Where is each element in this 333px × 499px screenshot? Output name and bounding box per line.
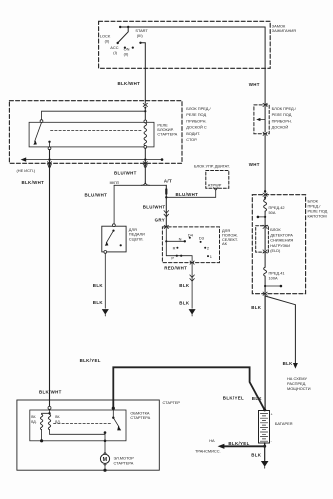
relay contact lever [35, 123, 42, 142]
wire branch to power distribution [265, 296, 295, 363]
svg-text:A/T: A/T [164, 179, 172, 184]
wire below fuse 42 [264, 211, 266, 227]
wire below fuse 41 [264, 276, 266, 292]
stub terminal left [258, 216, 265, 218]
node crossing solenoid case [104, 440, 107, 443]
breaker arrow inside [260, 119, 266, 121]
connector chevron at ECM [214, 188, 218, 191]
wire to hold winding [42, 412, 50, 415]
svg-text:BLK/WHT: BLK/WHT [22, 180, 45, 185]
wire relay switched output [49, 143, 51, 147]
connector at dash fuse box entry [143, 103, 147, 106]
fuse 41 100A [264, 267, 267, 276]
wire through small fuse box [264, 107, 266, 132]
svg-text:1: 1 [210, 254, 212, 259]
relay mechanical link [51, 129, 143, 131]
svg-text:RED/WHT: RED/WHT [164, 266, 187, 271]
wire BLK/YEL starter to battery (heavy) [113, 367, 264, 409]
fuse 42 50A [264, 199, 267, 211]
starter solenoid box [30, 410, 126, 441]
relay coil terminal bottom [144, 146, 147, 149]
wire pivot feed [112, 410, 114, 418]
svg-text:BLK/WHT: BLK/WHT [118, 81, 141, 86]
solenoid mechanical link [54, 422, 111, 424]
winding labels [31, 415, 60, 424]
svg-text:БЛОК ПРЕД./: БЛОК ПРЕД./ [272, 106, 297, 111]
wire WHT down to underhood box [264, 135, 266, 193]
node P row dot [180, 255, 182, 257]
node ON contact [132, 47, 134, 49]
ignition switch label [272, 23, 296, 32]
svg-text:ДОСКОЙ С: ДОСКОЙ С [186, 125, 207, 130]
wire into windings [49, 409, 51, 413]
svg-text:ДОСКОЙ: ДОСКОЙ [272, 125, 289, 130]
A/T gear position switch dashed box [162, 227, 219, 263]
svg-text:BLK/YEL: BLK/YEL [223, 396, 244, 401]
svg-text:СЦЕПЛ.: СЦЕПЛ. [129, 236, 144, 241]
node winding split [48, 412, 50, 414]
svg-text:D3: D3 [199, 236, 204, 241]
ignition switch lever (in LOCK) [118, 27, 128, 43]
wire into fuse 42 [264, 196, 266, 199]
connector right wire box exit [143, 162, 147, 165]
connector at underhood box exit [263, 292, 267, 295]
node LOCK contact [117, 42, 119, 44]
node motor case ground [103, 469, 106, 472]
svg-text:ВК.: ВК. [55, 415, 60, 419]
connector at ELD box entry [263, 225, 267, 228]
svg-text:-: - [271, 440, 272, 444]
node B terminal on solenoid [112, 407, 115, 410]
node end dot [161, 158, 164, 161]
svg-text:WHT: WHT [249, 82, 260, 87]
svg-text:ТРАНСМИСС.: ТРАНСМИСС. [195, 449, 221, 454]
svg-text:R: R [173, 245, 176, 250]
relay coil R [144, 123, 147, 146]
solenoid contact pivot [112, 417, 114, 419]
node junction right [144, 158, 146, 160]
battery polarity [271, 412, 273, 443]
svg-text:(II): (II) [124, 52, 129, 57]
terminal circle bottom of contact [48, 147, 51, 150]
wire to fuse 41 [264, 253, 266, 267]
arrow not used [21, 157, 27, 161]
wire to N contact [166, 240, 184, 242]
inline connector on A/T branch [164, 211, 169, 217]
node battery negative junction [263, 445, 266, 448]
svg-text:BLU/WHT: BLU/WHT [114, 171, 137, 176]
wire M terminal to motor [104, 433, 106, 453]
arrow to power distribution [293, 363, 298, 369]
ignition position labels [100, 28, 149, 56]
svg-text:BLK: BLK [93, 300, 104, 305]
connector at underhood box entry [263, 193, 267, 196]
svg-text:РЕЛЕ ПОД: РЕЛЕ ПОД [186, 112, 206, 117]
svg-text:BLU/WHT: BLU/WHT [143, 204, 166, 209]
wire hold winding to case [41, 429, 43, 440]
solenoid terminal circle [48, 406, 51, 409]
svg-text:АК: АК [222, 241, 228, 246]
wire START to starter-cut relay [141, 43, 146, 103]
svg-text:(ELD): (ELD) [270, 248, 281, 253]
wire battery negative [264, 443, 266, 446]
relay label [157, 123, 177, 137]
svg-text:2: 2 [207, 245, 209, 250]
clutch switch terminal bottom [104, 251, 107, 254]
selector box label [222, 228, 238, 246]
node junction N branch [165, 240, 167, 242]
ELD label [270, 227, 293, 253]
svg-text:СТАРТЕРА: СТАРТЕРА [114, 460, 134, 465]
svg-text:КАПОТОМ: КАПОТОМ [308, 213, 327, 218]
label to power distribution [287, 376, 311, 391]
label starter winding [130, 410, 150, 420]
svg-text:СТАРТЕРА: СТАРТЕРА [130, 415, 150, 420]
svg-text:BLK: BLK [251, 305, 262, 310]
svg-text:ВОДИТ.: ВОДИТ. [186, 131, 200, 136]
ignition switch dashed housing [99, 21, 271, 68]
svg-text:GRY: GRY [155, 217, 165, 222]
solenoid contact lever [113, 418, 119, 427]
wire selector common [165, 229, 167, 256]
pull-in winding [48, 413, 50, 430]
svg-text:ПРИБОРН.: ПРИБОРН. [186, 118, 206, 123]
svg-text:(НЕ ИСП.): (НЕ ИСП.) [17, 168, 36, 173]
underdash fuse/relay dashed box (left) [9, 101, 182, 164]
underdash fuse box label [186, 106, 211, 142]
wire battery to ground [264, 446, 266, 461]
wire pull-in winding to motor terminal [50, 429, 106, 434]
clutch switch lever [106, 231, 113, 243]
battery [259, 411, 270, 444]
arrow to transmission [218, 444, 225, 449]
svg-text:BLK: BLK [283, 361, 294, 366]
clutch pedal switch box [102, 226, 126, 252]
split bus M/T - A/T [114, 184, 166, 186]
clutch switch unused contact [120, 244, 122, 246]
svg-text:СТОР.: СТОР. [186, 137, 197, 142]
svg-text:БАТАРЕЯ: БАТАРЕЯ [275, 421, 293, 426]
wire clutch switch to ground [104, 253, 106, 308]
connector at selector box exit [190, 261, 194, 264]
svg-text:БЛОК УПР. ДВИГАТ.: БЛОК УПР. ДВИГАТ. [194, 163, 230, 168]
svg-text:РЕЛЕ ПОД: РЕЛЕ ПОД [272, 112, 292, 117]
relay fixed contact [48, 141, 50, 143]
clutch switch pivot [112, 230, 114, 232]
svg-text:50А: 50А [269, 210, 276, 215]
svg-text:D4: D4 [188, 232, 194, 237]
svg-text:BLK/YEL: BLK/YEL [228, 441, 249, 446]
svg-text:(III): (III) [137, 33, 144, 38]
svg-text:N: N [179, 236, 182, 241]
node ACC contact [124, 47, 126, 49]
svg-text:ПРИБОРН.: ПРИБОРН. [272, 118, 292, 123]
clutch switch terminal top [113, 224, 116, 227]
svg-text:BLK/YEL: BLK/YEL [80, 358, 101, 363]
svg-text:ЗАЖИГАНИЯ: ЗАЖИГАНИЯ [272, 28, 296, 33]
svg-text:ВД.: ВД. [31, 420, 36, 424]
node P contact [176, 255, 178, 257]
wire A/T branch down [165, 185, 167, 227]
relay coil terminal top [144, 120, 147, 123]
underdash fuse box (right small) [254, 105, 269, 134]
node lever pivot [127, 26, 129, 28]
connector at ELD box exit [263, 250, 267, 253]
wire BLK/YEL to transmission (heavy) [224, 445, 265, 447]
underhood fuse/relay dashed box [252, 195, 305, 294]
wire BLU/WHT relay to split [144, 148, 146, 181]
svg-text:100А: 100А [269, 276, 278, 281]
svg-text:BLK/WHT: BLK/WHT [39, 389, 62, 394]
wire through ELD box [264, 228, 266, 249]
wire selector output to ground [191, 264, 193, 308]
split junction curls [141, 182, 150, 186]
svg-text:BLK: BLK [179, 283, 190, 288]
ground G (clutch circuit) [102, 309, 109, 315]
label starter motor [114, 456, 135, 466]
svg-text:ATPWP: ATPWP [208, 183, 222, 188]
inline connector below selector [190, 275, 195, 281]
node feed terminal [119, 26, 121, 28]
svg-text:МОЩНОСТИ: МОЩНОСТИ [287, 386, 311, 391]
selector position labels [171, 232, 212, 260]
node junction of contact feed [144, 110, 146, 112]
wire BLK/WHT left long run to starter [49, 150, 51, 407]
svg-text:СТАРТЕР: СТАРТЕР [163, 400, 181, 405]
wire ignition feed horizontal to right column [120, 27, 265, 105]
ECM dashed box (ATPWP) [206, 171, 229, 189]
node START contact [139, 42, 141, 44]
stub terminal right [265, 285, 281, 287]
connector at small fuse box exit [263, 132, 267, 135]
ground G (selector circuit) [189, 309, 196, 315]
connector tick on A/T branch [165, 189, 167, 193]
wire BLK main to battery [264, 295, 266, 408]
svg-text:M: M [103, 457, 108, 463]
wire motor to case ground [104, 466, 106, 470]
starter cut relay body [29, 122, 154, 147]
wire M/T branch down to clutch switch [113, 185, 115, 224]
svg-text:(0): (0) [105, 39, 110, 44]
starter motor M [103, 452, 107, 454]
underhood box label [308, 198, 328, 218]
svg-text:BLK: BLK [93, 283, 104, 288]
ELD dashed box [256, 226, 269, 252]
svg-text:BLU/WHT: BLU/WHT [85, 193, 108, 198]
svg-text:СТАРТЕРА: СТАРТЕРА [157, 132, 177, 137]
svg-text:BLU/WHT: BLU/WHT [176, 192, 199, 197]
svg-text:BLK: BLK [179, 301, 190, 306]
node above underhood box [264, 190, 266, 192]
small fuse box label [272, 106, 297, 130]
svg-text:WHT: WHT [249, 162, 260, 167]
wire from ATPWP [166, 191, 215, 198]
svg-text:(I): (I) [113, 50, 117, 55]
node M terminal [104, 431, 107, 434]
svg-text:BLK: BLK [251, 452, 262, 457]
node battery positive junction [263, 408, 266, 411]
ground G (battery) [261, 461, 269, 467]
svg-text:ВК.: ВК. [31, 415, 36, 419]
selector position contacts [189, 237, 191, 239]
clutch switch label [129, 227, 145, 242]
connector at small fuse box entry [263, 103, 267, 106]
connector left wire box exit [47, 162, 51, 165]
relay contact terminal circle [40, 120, 43, 123]
node junction left [48, 158, 50, 160]
svg-text:НА: НА [209, 438, 215, 443]
svg-text:МКПП: МКПП [110, 181, 120, 185]
label to transmission [195, 438, 221, 453]
node case ground [40, 439, 43, 442]
svg-text:БЛОК ПРЕД./: БЛОК ПРЕД./ [186, 106, 211, 111]
node junction with ECM feed [165, 196, 167, 198]
node N contact [184, 240, 186, 242]
wire into relay [144, 109, 146, 120]
svg-text:+: + [271, 412, 273, 416]
starter outer case [17, 400, 159, 470]
wire relay contact feed [42, 111, 146, 120]
not-used bus wire [25, 159, 162, 161]
connector at selector box entry [164, 225, 168, 228]
wire selector P row to output [166, 256, 192, 261]
hold winding [40, 414, 42, 430]
